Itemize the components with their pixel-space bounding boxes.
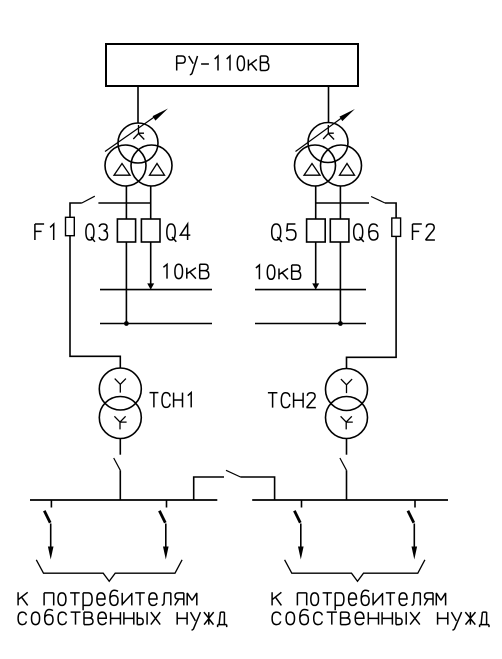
feeder 3 breaker blade xyxy=(294,511,300,523)
breaker Q5 xyxy=(307,219,326,242)
label Q6 xyxy=(354,224,378,242)
transformer T1 (three-winding) xyxy=(105,123,172,186)
disconnect switch blade F2 branch xyxy=(371,197,385,204)
label 10кВ left xyxy=(163,264,208,278)
junction dot Q3 bus xyxy=(124,321,129,326)
transformer T2 (three-winding) xyxy=(295,123,362,187)
switch blade below TCH2 xyxy=(340,458,347,470)
breaker Q6 xyxy=(330,219,349,242)
bus-tie switch blade xyxy=(226,470,241,477)
label собственных нужд left xyxy=(18,609,227,630)
label ТСН2 xyxy=(268,393,316,408)
fuse F2 xyxy=(392,218,401,236)
wire Q6 to lower 10kV bus xyxy=(339,242,341,324)
main LV busbar left section xyxy=(30,499,217,501)
arrow Q4 into bus xyxy=(147,283,154,289)
brace right xyxy=(285,560,425,582)
feeder 1 arrow xyxy=(48,547,54,560)
wire tap to F1 branch xyxy=(98,202,150,204)
feeder 2 stub xyxy=(166,500,168,508)
switchgear bus РУ-110кВ box xyxy=(106,44,358,86)
label Q5 xyxy=(272,224,296,242)
feeder 4 breaker blade xyxy=(408,511,414,523)
disconnect switch blade F1 branch xyxy=(82,196,95,203)
feeder 1 breaker blade xyxy=(44,511,50,523)
main LV busbar right section xyxy=(252,499,448,501)
label Q4 xyxy=(167,224,191,242)
breaker Q4 xyxy=(141,219,160,242)
wire T2 winding a to Q5 xyxy=(315,186,317,220)
wire T1 winding a to Q3 xyxy=(125,186,127,220)
feeder 4 arrow xyxy=(412,547,418,560)
junction dot Q6 bus xyxy=(338,321,343,326)
tap-changer arrow T1 xyxy=(105,109,168,152)
wire feed to T2 xyxy=(328,86,330,123)
wire Q5 to upper 10kV bus xyxy=(315,242,317,285)
label Q3 xyxy=(86,224,108,242)
wire TCH1 down xyxy=(119,439,121,455)
busbar 10kV left upper xyxy=(100,289,212,291)
brace left xyxy=(36,560,182,582)
feeder 4 wire xyxy=(413,524,415,551)
label К потребителям right xyxy=(272,590,446,610)
wire F2 branch down xyxy=(385,203,396,218)
transformer TCH1 (two-winding) xyxy=(99,368,141,439)
breaker Q3 xyxy=(117,219,135,242)
feeder 4 stub xyxy=(414,500,416,508)
fuse F1 xyxy=(66,217,75,235)
wire TCH2 down xyxy=(346,439,348,455)
bus-tie riser left xyxy=(194,477,224,500)
wire TCH1 switch to bus xyxy=(119,470,121,500)
feeder 2 breaker blade xyxy=(159,511,165,523)
wire F1 to TCH1 xyxy=(70,236,120,369)
tap-changer arrow T2 xyxy=(296,109,355,152)
label ТСН1 xyxy=(150,393,192,408)
wire Q3 to lower 10kV bus xyxy=(125,242,127,324)
feeder 3 wire xyxy=(300,524,302,551)
label К потребителям left xyxy=(18,590,197,610)
feeder 1 stub xyxy=(50,500,52,508)
label РУ-110кВ xyxy=(177,56,269,75)
wire T2 winding b to Q6 xyxy=(339,186,341,220)
busbar 10kV left lower xyxy=(100,323,212,325)
feeder 2 arrow xyxy=(163,547,169,560)
busbar 10kV right lower xyxy=(255,323,366,325)
label собственных нужд right xyxy=(272,609,489,630)
label F1 xyxy=(35,224,54,240)
wire F2 to TCH2 xyxy=(347,236,397,368)
feeder 3 arrow xyxy=(298,547,304,560)
arrow Q5 into bus xyxy=(312,283,319,289)
feeder 2 wire xyxy=(165,524,167,551)
wire feed to T1 xyxy=(137,86,139,124)
busbar 10kV right upper xyxy=(255,289,366,291)
feeder 1 wire xyxy=(50,524,52,551)
wire T1 winding b to Q4 xyxy=(150,186,152,220)
wire F1 branch down xyxy=(70,203,82,217)
switch blade below TCH1 xyxy=(114,458,121,470)
wire TCH2 switch to bus xyxy=(346,470,348,500)
label 10кВ right xyxy=(256,265,301,279)
label F2 xyxy=(413,224,435,240)
wire F2 tap xyxy=(316,202,369,204)
feeder 3 stub xyxy=(301,500,303,508)
bus-tie riser right xyxy=(241,477,275,500)
transformer TCH2 (two-winding) xyxy=(326,369,368,439)
wire Q4 to upper 10kV bus xyxy=(150,242,152,285)
